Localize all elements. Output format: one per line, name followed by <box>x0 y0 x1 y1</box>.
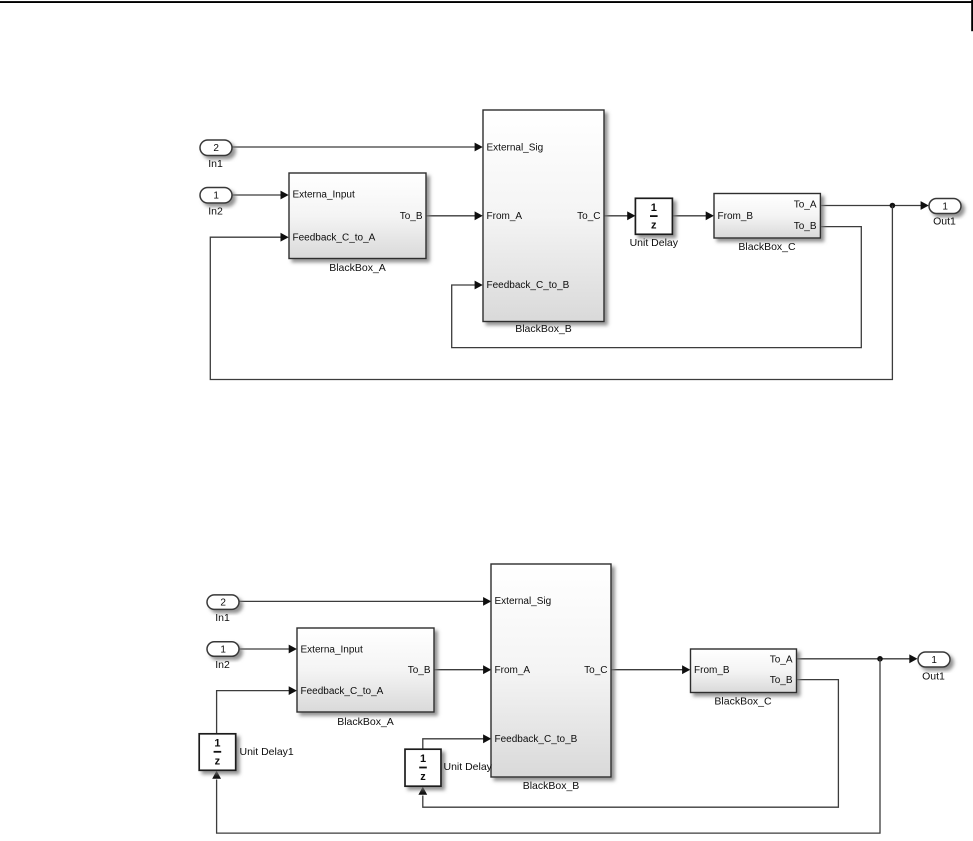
svg-text:From_B: From_B <box>694 665 730 676</box>
svg-text:2: 2 <box>213 143 219 154</box>
wire junction feedback down to Unit Delay1 input (lower) <box>212 659 880 833</box>
svg-text:BlackBox_C: BlackBox_C <box>714 696 772 708</box>
svg-text:From_A: From_A <box>487 211 523 222</box>
svg-text:In1: In1 <box>215 612 230 624</box>
inport In1 (top) <box>200 140 232 170</box>
svg-text:To_B: To_B <box>770 675 793 686</box>
svg-text:To_A: To_A <box>770 654 793 665</box>
svg-text:To_B: To_B <box>794 221 817 232</box>
svg-text:1: 1 <box>931 655 937 666</box>
inport In2 (top) <box>200 188 232 218</box>
wire BlackBox_A To_B to BlackBox_B From_A <box>426 211 483 220</box>
svg-text:From_B: From_B <box>718 211 754 222</box>
svg-text:BlackBox_C: BlackBox_C <box>738 241 796 253</box>
subsystem BlackBox_C (lower) <box>691 649 797 708</box>
subsystem BlackBox_B (lower) <box>491 564 611 792</box>
outport Out1 (top) <box>929 199 961 228</box>
svg-text:1: 1 <box>651 202 657 214</box>
svg-text:1: 1 <box>220 645 226 656</box>
svg-text:Unit Delay: Unit Delay <box>444 761 493 773</box>
wire In1 to BlackBox_B External_Sig (lower) <box>239 597 491 606</box>
wire In1 to BlackBox_B External_Sig <box>232 143 483 152</box>
svg-text:In2: In2 <box>215 659 230 671</box>
wire Unit Delay output to BlackBox_B Feedback_C_to_B (lower) <box>423 734 492 749</box>
subsystem BlackBox_A (lower) <box>297 628 434 728</box>
svg-text:In2: In2 <box>208 205 223 217</box>
svg-text:External_Sig: External_Sig <box>495 596 552 607</box>
svg-text:Unit Delay1: Unit Delay1 <box>240 746 294 758</box>
svg-text:To_B: To_B <box>400 211 423 222</box>
svg-text:To_C: To_C <box>584 665 607 676</box>
junction node on To_A wire (lower) <box>877 656 883 662</box>
unit delay block Unit Delay (lower, rotated up) <box>405 749 493 786</box>
svg-text:Feedback_C_to_A: Feedback_C_to_A <box>301 686 384 697</box>
subsystem BlackBox_A (top) <box>289 173 426 274</box>
svg-text:To_B: To_B <box>408 665 431 676</box>
svg-text:BlackBox_A: BlackBox_A <box>337 716 394 728</box>
wire junction feedback to BlackBox_A Feedback_C_to_A <box>210 206 892 380</box>
svg-text:To_C: To_C <box>577 211 600 222</box>
svg-text:z: z <box>420 771 426 783</box>
svg-text:Feedback_C_to_B: Feedback_C_to_B <box>495 734 578 745</box>
wire Unit Delay to BlackBox_C From_B <box>672 211 714 220</box>
svg-text:BlackBox_B: BlackBox_B <box>523 780 580 792</box>
wire BlackBox_B To_C to BlackBox_C From_B (lower) <box>611 665 690 674</box>
svg-text:1: 1 <box>214 738 220 750</box>
wire In2 to BlackBox_A Externa_Input <box>232 191 289 200</box>
svg-text:z: z <box>215 755 221 767</box>
wire BlackBox_C To_B feedback to BlackBox_B Feedback_C_to_B <box>452 227 862 348</box>
svg-text:Out1: Out1 <box>922 671 945 683</box>
svg-text:Externa_Input: Externa_Input <box>301 645 363 656</box>
wire Unit Delay1 output to BlackBox_A Feedback_C_to_A (lower) <box>217 686 297 734</box>
wire BlackBox_C To_B feedback down to Unit Delay input (lower) <box>418 680 838 808</box>
svg-text:In1: In1 <box>208 158 223 170</box>
svg-text:External_Sig: External_Sig <box>487 143 544 154</box>
junction node on To_A wire <box>890 203 896 209</box>
wire In2 to BlackBox_A Externa_Input (lower) <box>239 645 297 654</box>
inport In1 (lower) <box>207 595 239 624</box>
svg-text:Externa_Input: Externa_Input <box>293 190 355 201</box>
svg-text:z: z <box>651 220 657 232</box>
svg-text:From_A: From_A <box>495 665 531 676</box>
svg-text:Unit Delay: Unit Delay <box>630 237 679 249</box>
unit delay block Unit Delay1 (lower, rotated up) <box>199 734 294 771</box>
svg-text:1: 1 <box>942 202 948 213</box>
wire BlackBox_B To_C to Unit Delay <box>604 211 635 220</box>
inport In2 (lower) <box>207 642 239 671</box>
svg-text:Out1: Out1 <box>933 216 956 228</box>
svg-text:Feedback_C_to_A: Feedback_C_to_A <box>293 233 376 244</box>
outport Out1 (lower) <box>918 652 950 683</box>
wire BlackBox_A To_B to BlackBox_B From_A (lower) <box>434 665 491 674</box>
svg-text:1: 1 <box>213 191 219 202</box>
subsystem BlackBox_C (top) <box>714 194 820 254</box>
top window border line <box>0 1 973 3</box>
unit delay block Unit Delay (top) <box>630 198 679 249</box>
svg-text:BlackBox_A: BlackBox_A <box>329 262 386 274</box>
svg-text:To_A: To_A <box>794 200 817 211</box>
wire BlackBox_C To_A to Out1 (lower) <box>797 654 918 663</box>
svg-text:1: 1 <box>420 753 426 765</box>
right window border segment <box>971 0 973 31</box>
svg-text:Feedback_C_to_B: Feedback_C_to_B <box>487 280 570 291</box>
svg-text:BlackBox_B: BlackBox_B <box>515 323 572 335</box>
subsystem BlackBox_B (top) <box>483 110 604 335</box>
wire BlackBox_C To_A to Out1 <box>820 201 928 210</box>
svg-text:2: 2 <box>220 598 226 609</box>
